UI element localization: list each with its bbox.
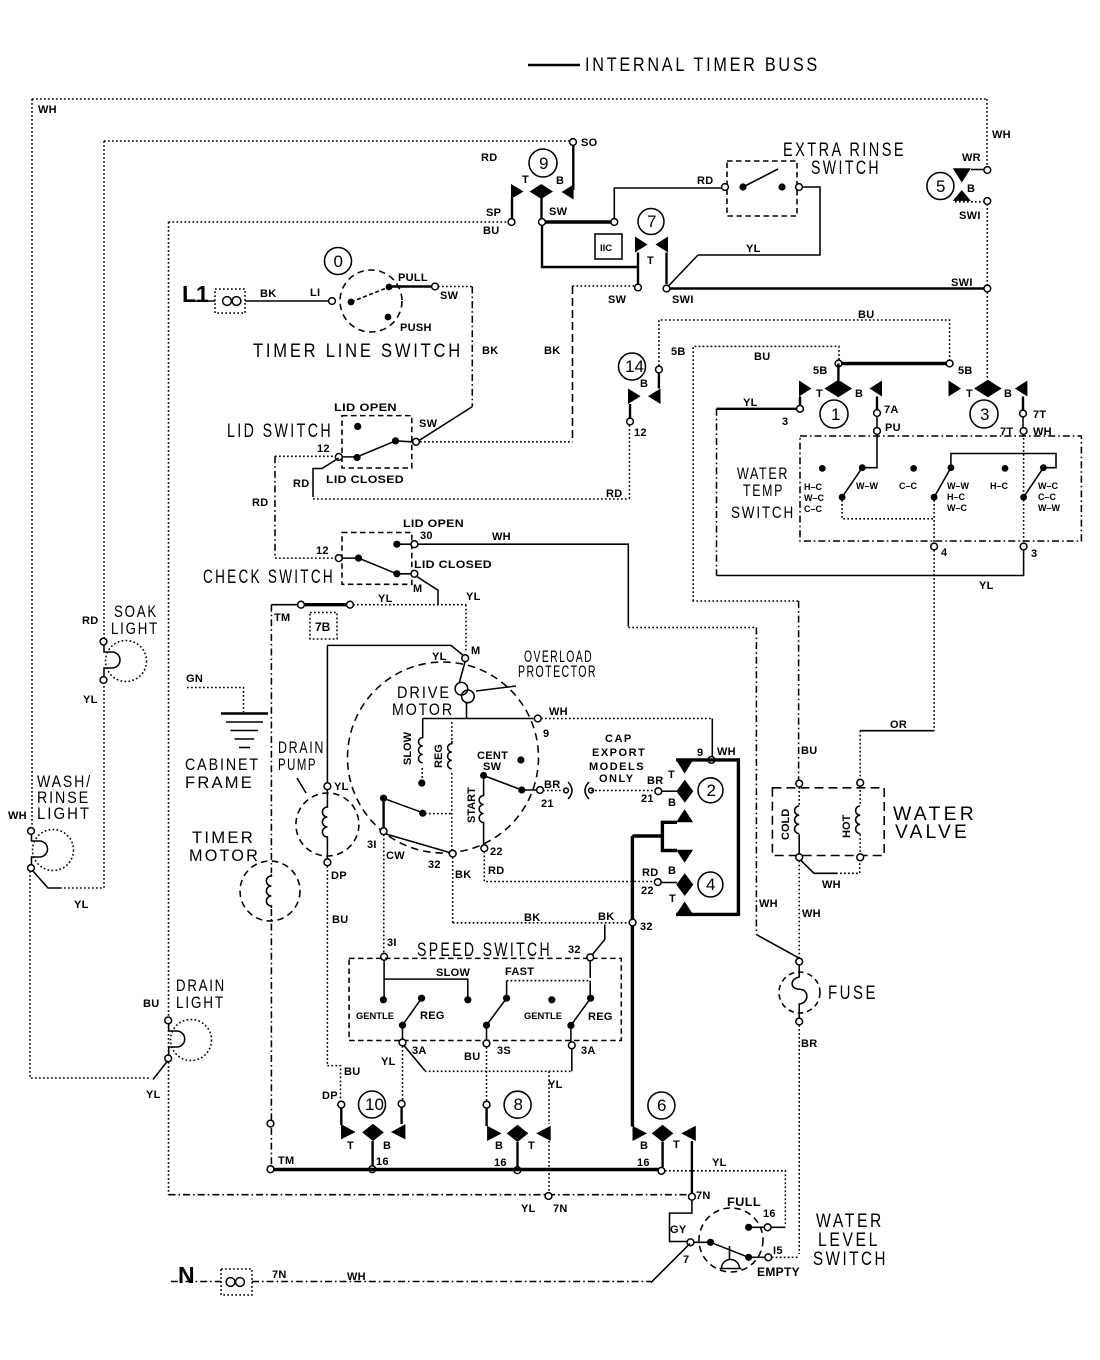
wire BR fuse down — [798, 1025, 800, 1254]
node 3S — [483, 1040, 490, 1047]
svg-text:B: B — [855, 388, 863, 400]
node YL sw10 — [398, 1100, 405, 1107]
svg-text:LEVEL: LEVEL — [818, 1230, 880, 1251]
node YL drain pump — [324, 783, 331, 790]
COLD coil — [798, 787, 800, 806]
wire dot to 30 — [397, 543, 411, 545]
circle 10 id — [359, 1091, 386, 1118]
speed blades — [403, 998, 422, 1025]
node SP — [508, 219, 515, 226]
svg-text:MOTOR: MOTOR — [189, 847, 260, 865]
wire third border vertical — [168, 222, 170, 1195]
overload protector coils — [460, 661, 466, 682]
svg-text:3S: 3S — [497, 1045, 511, 1057]
svg-text:REG: REG — [588, 1011, 613, 1023]
svg-text:BK: BK — [482, 345, 499, 357]
wtemp group3 pivot — [1020, 494, 1027, 501]
wire BK from L1 — [245, 300, 328, 302]
svg-text:SW: SW — [549, 206, 568, 218]
wash light bottom node — [28, 865, 35, 872]
wire PULL to SW — [389, 285, 431, 287]
node 22 sw4 — [654, 879, 661, 886]
svg-text:T: T — [347, 1140, 354, 1152]
svg-text:GENTLE: GENTLE — [356, 1011, 394, 1022]
extra rinse switch box — [727, 161, 797, 216]
wire BK drop dash-dot — [471, 287, 473, 407]
node term 3 — [1020, 543, 1027, 550]
wire 7A to PU — [876, 416, 878, 428]
svg-text:RD: RD — [606, 488, 623, 500]
wire WH diag to fuse — [756, 935, 799, 959]
svg-text:CAP: CAP — [605, 733, 633, 745]
switch 10 out lead — [371, 1141, 373, 1166]
svg-text:3: 3 — [782, 416, 788, 428]
svg-text:MOTOR: MOTOR — [392, 701, 454, 719]
cent sw blade — [484, 776, 536, 791]
node full 16 — [764, 1224, 771, 1231]
wire L1 lead — [188, 300, 215, 302]
svg-text:B: B — [1004, 388, 1012, 400]
switch 10 DP lead — [340, 1108, 342, 1125]
water level switch circle — [699, 1208, 763, 1272]
svg-text:HOT: HOT — [841, 815, 853, 839]
node COLD bottom — [796, 854, 803, 861]
wire BU DP corner — [327, 1066, 340, 1101]
wtemp pivot3 to term 3 — [1023, 500, 1025, 543]
svg-text:FAST: FAST — [505, 966, 534, 978]
wire DP down — [326, 866, 328, 1066]
wire empty to BR — [772, 1256, 800, 1258]
svg-text:SW: SW — [440, 290, 459, 302]
svg-text:LI: LI — [310, 287, 320, 299]
wls blade — [711, 1242, 749, 1257]
wtemp group1 upper dot — [859, 464, 866, 471]
node fuse bottom — [796, 1018, 803, 1025]
svg-text:RD: RD — [488, 865, 505, 877]
wls diaphragm — [729, 1246, 731, 1259]
switch 8 out lead — [516, 1142, 518, 1167]
svg-text:T: T — [816, 388, 823, 400]
wtemp group3 blade — [1024, 468, 1044, 498]
switch 14 lead to 12 — [629, 404, 631, 418]
wash light top node — [28, 828, 35, 835]
switch 2 diamond — [676, 780, 693, 803]
svg-text:22: 22 — [490, 846, 503, 858]
switch 1 left triangle — [799, 381, 812, 397]
node SW — [432, 283, 439, 290]
check switch box — [342, 533, 412, 585]
svg-text:REG: REG — [433, 744, 445, 768]
svg-text:OR: OR — [890, 719, 907, 731]
wire 12 lid left — [275, 455, 335, 457]
svg-text:PUMP: PUMP — [278, 756, 317, 774]
svg-text:4: 4 — [941, 547, 948, 559]
node 21 sw2 — [655, 788, 662, 795]
svg-text:ONLY: ONLY — [599, 773, 635, 785]
legend line internal timer buss — [528, 64, 580, 66]
wire YL to drive motor M — [327, 645, 464, 656]
svg-text:T: T — [668, 769, 675, 781]
svg-text:W–W: W–W — [1038, 503, 1061, 513]
wire 16 thick bus — [273, 1168, 659, 1171]
svg-text:TIMER LINE SWITCH: TIMER LINE SWITCH — [253, 341, 463, 362]
svg-text:T: T — [669, 893, 676, 905]
wire YL sw8 drop — [548, 1071, 550, 1124]
wire YL thick from 3 — [717, 408, 798, 410]
svg-text:3: 3 — [1031, 548, 1037, 560]
svg-text:MODELS: MODELS — [589, 761, 645, 773]
wire drain light YL diag — [153, 1061, 168, 1080]
sw2 thick top bar — [676, 758, 738, 761]
switch 9 diamond lead to SW — [540, 198, 542, 219]
lid switch box — [342, 416, 412, 468]
lid blade — [342, 441, 412, 457]
svg-text:WH: WH — [759, 898, 778, 910]
wire YL drop dashdot — [716, 409, 718, 576]
node YL-7N junction — [545, 1193, 552, 1200]
svg-text:B: B — [383, 1140, 391, 1152]
svg-text:SW: SW — [608, 294, 627, 306]
node term 4 — [931, 543, 938, 550]
switch 6 right lead to 7N — [691, 1141, 693, 1193]
node 12 lid — [335, 454, 342, 461]
svg-text:3A: 3A — [581, 1045, 596, 1057]
wire N to GY — [252, 1281, 651, 1283]
svg-text:12: 12 — [317, 443, 330, 455]
svg-text:DP: DP — [331, 870, 347, 882]
svg-text:WH: WH — [549, 706, 568, 718]
svg-text:LID CLOSED: LID CLOSED — [414, 559, 492, 571]
wire CW diag — [386, 834, 450, 853]
svg-text:3A: 3A — [412, 1045, 427, 1057]
switch 9 T lead to SP — [511, 198, 513, 220]
wire 7N bottom run — [169, 1194, 690, 1196]
node DP — [324, 859, 331, 866]
wire YL down to drain pump — [326, 645, 328, 783]
lid blade dots — [354, 454, 361, 461]
wire BU lower loop — [693, 346, 839, 601]
wire TM vertical — [270, 605, 272, 873]
wtemp group2 blade — [934, 468, 951, 498]
wire protector to 9 bus — [466, 703, 468, 719]
svg-text:llC: llC — [600, 243, 612, 254]
svg-text:DRAIN: DRAIN — [278, 739, 325, 757]
svg-text:VALVE: VALVE — [895, 822, 970, 843]
svg-text:WH: WH — [38, 104, 57, 116]
fast bus — [507, 980, 591, 982]
svg-text:YL: YL — [378, 593, 393, 605]
wire SW thick to junction — [545, 220, 611, 223]
switch 3 B lead to 7T — [1022, 397, 1024, 411]
svg-text:BR: BR — [801, 1038, 818, 1050]
node 16 sw6 — [658, 1167, 665, 1174]
svg-text:CW: CW — [386, 850, 405, 862]
node 5B sw14 — [656, 366, 663, 373]
node 7T — [1020, 410, 1027, 417]
svg-text:7N: 7N — [272, 1269, 287, 1281]
wire BK long-dash drop — [572, 286, 574, 442]
wire 5B thick — [842, 362, 946, 365]
svg-text:PU: PU — [885, 422, 901, 434]
wire BU to water valve — [692, 600, 798, 602]
valve bottom jumper — [801, 860, 837, 873]
svg-text:SWI: SWI — [672, 294, 694, 306]
wire 7T to 7T2 — [1022, 417, 1024, 428]
switch 4 lower triangle — [676, 902, 693, 915]
switch 6 right triangle — [681, 1126, 696, 1141]
cent sw lower dot — [518, 786, 525, 793]
speed pivots — [399, 1022, 406, 1029]
svg-text:WH: WH — [492, 531, 511, 543]
svg-text:YL: YL — [548, 1079, 563, 1091]
svg-text:L1: L1 — [182, 281, 209, 307]
wire 12 lid to RD corner — [313, 458, 339, 497]
svg-text:16: 16 — [376, 1156, 389, 1168]
svg-text:W–C: W–C — [947, 503, 968, 513]
water valve box — [772, 788, 884, 856]
node SW sw9 — [539, 219, 546, 226]
switch 8 BU lead — [485, 1108, 487, 1126]
switch 3 right triangle — [1015, 381, 1028, 397]
circle 14 id — [619, 353, 646, 380]
node 30 — [411, 541, 418, 548]
wire BK 32 down — [452, 857, 454, 923]
drain light bottom node — [165, 1055, 172, 1062]
wire WH to sw2 — [541, 718, 712, 720]
switch 14 left triangle — [628, 389, 641, 405]
svg-text:9: 9 — [543, 728, 549, 740]
svg-text:BR: BR — [544, 779, 561, 791]
wire RD second border horizontal — [104, 140, 570, 142]
svg-text:T: T — [647, 255, 654, 267]
node 21 motor — [537, 787, 544, 794]
switch 4 upper triangle — [676, 850, 693, 863]
node 12 check — [335, 555, 342, 562]
svg-text:BK: BK — [260, 288, 277, 300]
wire 22 to diamond — [661, 882, 677, 884]
wire 7N to GY jog — [670, 1200, 692, 1242]
svg-text:H–C: H–C — [804, 482, 823, 492]
node SWI sw7 — [663, 285, 670, 292]
svg-text:9: 9 — [539, 154, 548, 173]
switch blade — [351, 287, 389, 302]
drain pump coil — [322, 789, 327, 859]
wire empty link — [752, 1256, 765, 1258]
node COLD top — [796, 780, 803, 787]
circle 7 id — [638, 209, 664, 235]
contact dot PULL — [386, 284, 393, 291]
svg-text:W–W: W–W — [856, 481, 879, 491]
switch 7 right triangle — [656, 237, 669, 253]
svg-text:RD: RD — [252, 497, 269, 509]
node empty 15 — [765, 1254, 772, 1261]
svg-text:YL: YL — [146, 1089, 161, 1101]
svg-text:2: 2 — [707, 781, 716, 800]
svg-text:WH: WH — [717, 746, 736, 758]
node WR — [984, 167, 991, 174]
wire WH valve to fuse — [798, 861, 800, 958]
wire full to YL — [749, 1226, 764, 1228]
svg-text:DP: DP — [322, 1090, 338, 1102]
extra rinse blade — [743, 169, 778, 187]
svg-text:21: 21 — [541, 798, 554, 810]
switch 2 lower triangle — [676, 809, 693, 822]
svg-text:WATER: WATER — [816, 1211, 884, 1232]
soak light bulb — [106, 641, 147, 682]
svg-text:YL: YL — [74, 899, 89, 911]
REG coil — [451, 722, 453, 741]
svg-text:RD: RD — [481, 152, 498, 164]
switch 9 SO lead — [572, 145, 574, 190]
switch 1 right triangle — [870, 381, 883, 397]
svg-text:YL: YL — [743, 397, 758, 409]
motor blade to REG — [385, 799, 423, 813]
wire 21 to capacitor — [543, 790, 566, 792]
node 3 sw1 — [797, 405, 804, 412]
node TM left — [298, 601, 305, 608]
svg-text:8: 8 — [514, 1095, 523, 1114]
soak light bottom node — [100, 677, 107, 684]
svg-text:YL: YL — [381, 1056, 396, 1068]
svg-text:LIGHT: LIGHT — [111, 620, 159, 638]
switch 9 diamond — [530, 184, 553, 199]
switch 9 right triangle B — [562, 185, 574, 200]
wtemp group1 to term4 — [842, 500, 934, 519]
circle 4 id — [698, 872, 723, 897]
svg-text:M: M — [471, 645, 480, 657]
wire wash to soak YL — [32, 870, 60, 888]
node HOT top — [857, 779, 864, 786]
wire er out right and down — [698, 187, 820, 255]
wtemp group2 pivot — [931, 494, 938, 501]
svg-text:9: 9 — [697, 747, 703, 759]
svg-text:BK: BK — [524, 912, 541, 924]
svg-text:FULL: FULL — [727, 1197, 761, 1209]
svg-text:10: 10 — [365, 1095, 384, 1114]
wire 7T2 into box — [1023, 434, 1025, 494]
wtemp group1 blade — [842, 468, 862, 498]
svg-text:SP: SP — [486, 207, 501, 219]
node 12 sw14 — [627, 418, 634, 425]
check blade — [342, 558, 411, 574]
wire RD to sw14-12 — [313, 498, 629, 500]
svg-text:FRAME: FRAME — [185, 774, 254, 792]
switch 1 diamond — [824, 380, 852, 397]
L1 connector circles — [223, 297, 232, 306]
svg-text:YL: YL — [83, 694, 98, 706]
svg-text:C–C: C–C — [804, 504, 823, 514]
svg-text:0: 0 — [334, 252, 343, 271]
svg-text:YL: YL — [466, 591, 481, 603]
svg-text:16: 16 — [637, 1157, 650, 1169]
svg-text:14: 14 — [625, 357, 644, 376]
svg-text:SLOW: SLOW — [436, 967, 471, 979]
svg-text:REG: REG — [420, 1010, 445, 1022]
soak light top node — [100, 638, 107, 645]
circle 8 id — [504, 1091, 531, 1118]
motor 3I lead — [382, 798, 384, 828]
wire GY to pivot — [694, 1241, 711, 1243]
wire 32 thick vertical — [631, 836, 634, 1127]
node 3A right — [568, 1042, 575, 1049]
svg-text:BU: BU — [858, 309, 875, 321]
node 3A left — [399, 1039, 406, 1046]
svg-text:SWITCH: SWITCH — [813, 1249, 888, 1270]
switch 3 diamond — [974, 380, 1002, 397]
switch 10 YL lead — [400, 1107, 402, 1124]
svg-text:BU: BU — [143, 998, 160, 1010]
svg-text:START: START — [466, 787, 478, 823]
node extra rinse out — [796, 184, 803, 191]
wire junction to 32 line — [632, 834, 662, 837]
svg-text:B: B — [668, 865, 676, 877]
ground wire — [187, 688, 244, 713]
svg-text:7N: 7N — [553, 1203, 568, 1215]
svg-text:T: T — [673, 1139, 680, 1151]
svg-text:32: 32 — [568, 944, 581, 956]
svg-text:GY: GY — [670, 1224, 687, 1236]
wtemp jumper g2 to g3 — [951, 454, 1056, 468]
svg-text:SWI: SWI — [959, 210, 981, 222]
wire SWI thick bus — [670, 287, 984, 289]
svg-text:1: 1 — [831, 405, 840, 424]
switch 14 lead to 5B — [658, 373, 660, 389]
svg-text:DRIVE: DRIVE — [397, 684, 451, 702]
N connector box — [221, 1269, 252, 1295]
switch 7 SW lead — [637, 253, 639, 285]
svg-text:WH: WH — [822, 879, 841, 891]
wire WH outer top border — [32, 98, 987, 100]
svg-text:3I: 3I — [387, 937, 397, 949]
wire OR from term4 — [933, 550, 935, 731]
svg-text:H–C: H–C — [990, 481, 1009, 491]
wire up and right to extra rinse RD — [614, 188, 722, 219]
svg-text:LIGHT: LIGHT — [37, 805, 91, 823]
svg-text:7N: 7N — [696, 1190, 711, 1202]
svg-text:4: 4 — [706, 875, 715, 894]
svg-text:B: B — [556, 175, 564, 187]
svg-text:WR: WR — [962, 152, 981, 164]
slow bus — [384, 960, 468, 997]
svg-text:21: 21 — [641, 793, 654, 805]
svg-text:BU: BU — [483, 225, 500, 237]
svg-text:DRAIN: DRAIN — [176, 977, 226, 995]
wire SW right — [438, 286, 472, 288]
node HOT bottom — [857, 854, 864, 861]
svg-text:SWITCH: SWITCH — [731, 504, 795, 522]
wtemp group1 pivot — [839, 494, 846, 501]
svg-text:M: M — [413, 583, 422, 595]
svg-text:WH: WH — [8, 810, 27, 822]
svg-text:SO: SO — [581, 137, 598, 149]
wire WH from 30 — [418, 544, 628, 626]
switch 5 WR lead — [971, 169, 984, 171]
wire SW down thick and right — [542, 225, 638, 267]
svg-text:W–C: W–C — [1038, 481, 1059, 491]
circle 3 id — [970, 400, 998, 428]
node SW sw7 — [635, 284, 642, 291]
svg-text:16: 16 — [494, 1157, 507, 1169]
SLOW coil — [419, 719, 423, 763]
empty dot — [745, 1254, 752, 1261]
timer motor dashed circle — [240, 861, 300, 921]
box 7B — [310, 613, 337, 640]
full dot — [745, 1224, 752, 1231]
sw2 thick right bar — [737, 758, 740, 914]
speed contact dots — [380, 996, 387, 1003]
N connector circles — [226, 1278, 235, 1287]
wire BU upper loop — [659, 320, 950, 366]
